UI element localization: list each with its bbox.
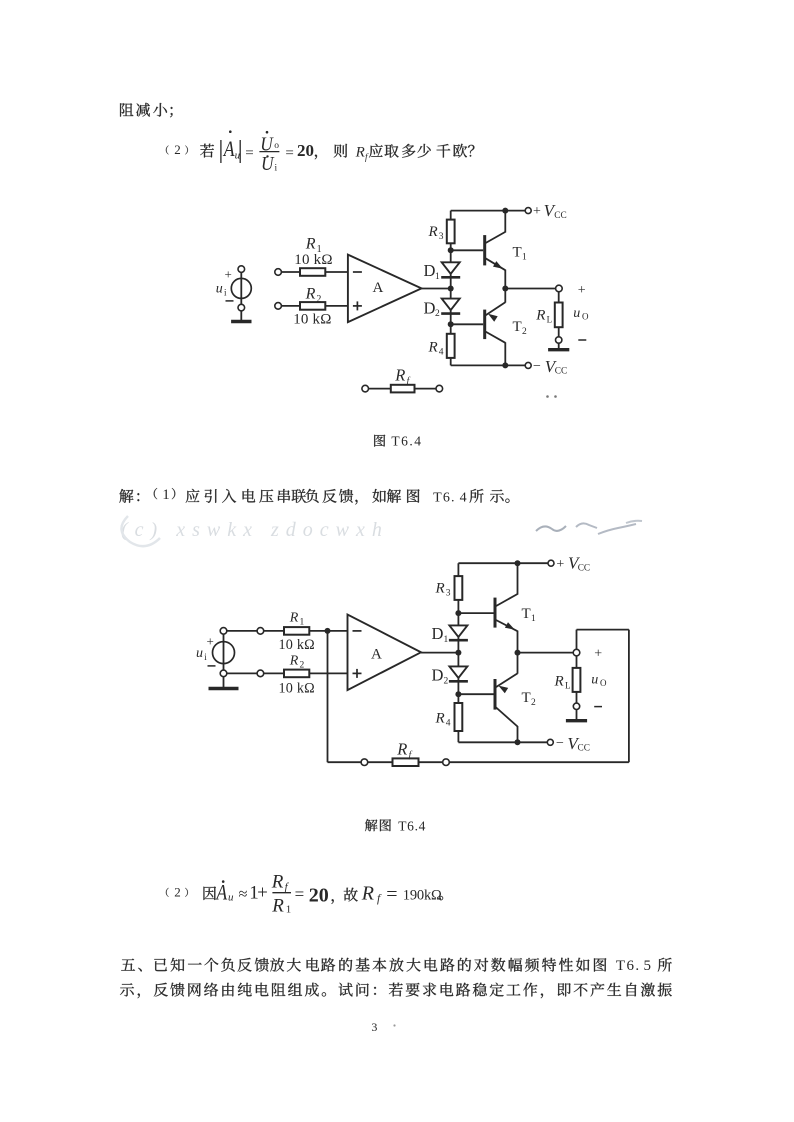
- wire output terminal up and over to feedback right side (fig2): [576, 630, 578, 650]
- svg-text:f: f: [285, 881, 290, 893]
- wire bottom rail (fig1): [451, 364, 526, 366]
- terminal +Vcc (fig1): [525, 208, 531, 214]
- resistor R1 (fig2): [284, 627, 309, 635]
- stray scan dots: [546, 395, 549, 398]
- node: R3/D1/T1 base junction (fig2): [455, 610, 461, 616]
- label - (uo): [578, 339, 586, 341]
- svg-text:10 kΩ: 10 kΩ: [294, 252, 332, 268]
- svg-text:CC: CC: [554, 211, 566, 221]
- diode D1 (fig1): [442, 262, 460, 274]
- svg-text:u: u: [573, 306, 580, 321]
- resistor R2 (fig1): [300, 302, 325, 310]
- transistor T2 (fig2, PNP): [458, 653, 517, 743]
- caption 图 T6.4: [374, 435, 385, 447]
- svg-text:T: T: [522, 606, 531, 622]
- node: output (emitters junction, fig1): [502, 286, 508, 292]
- resistor R4 (fig2): [455, 703, 463, 731]
- node terminal (fig2 R1 input): [257, 628, 264, 635]
- svg-text:T: T: [513, 319, 522, 335]
- resistor R3 (fig2): [455, 576, 463, 600]
- svg-text:R: R: [305, 286, 316, 303]
- svg-text:2: 2: [531, 698, 536, 708]
- terminal Rf right (fig2): [443, 759, 450, 766]
- wire: [281, 271, 300, 273]
- ground (fig2 RL): [576, 710, 578, 721]
- ground (fig1 RL): [558, 343, 560, 350]
- wire R2 to op-amp non-inverting input (fig2): [309, 672, 347, 674]
- terminal output + (fig2): [573, 649, 580, 656]
- svg-text:(c) xswkx zdocwxh: (c) xswkx zdocwxh: [121, 519, 389, 541]
- svg-text:CC: CC: [578, 563, 590, 573]
- wire: [264, 672, 284, 674]
- svg-text:2: 2: [522, 327, 527, 337]
- svg-text:+: +: [578, 283, 586, 298]
- ground (fig2 u_i): [223, 677, 225, 689]
- node: T1 collector to +Vcc rail (fig1): [502, 208, 508, 214]
- op-amp A (fig1): [348, 255, 422, 323]
- terminal output - (fig1): [556, 337, 562, 343]
- svg-text:3: 3: [446, 589, 451, 599]
- svg-text:T6.: T6.: [433, 491, 456, 506]
- diode D2 (fig2): [449, 666, 467, 678]
- svg-text:2: 2: [300, 661, 305, 671]
- svg-text:+: +: [533, 204, 541, 219]
- svg-text:D: D: [424, 299, 436, 318]
- svg-text:L: L: [547, 315, 553, 325]
- wire: [369, 388, 391, 390]
- svg-text:2: 2: [444, 677, 449, 687]
- wire feedback left run to inverting node (fig2): [328, 761, 362, 763]
- wire bottom rail (fig2): [458, 741, 547, 743]
- svg-text:2: 2: [174, 142, 181, 157]
- paragraph line B: [120, 983, 672, 999]
- wire feedback bottom run (fig2): [449, 761, 629, 763]
- terminal -Vcc (fig2): [547, 739, 553, 745]
- label - (uo fig2): [594, 706, 602, 708]
- svg-text:R: R: [435, 581, 445, 597]
- paragraph line A: [121, 958, 672, 974]
- svg-text:T: T: [513, 245, 522, 261]
- resistor RL (fig2): [573, 668, 581, 692]
- svg-text:T6.: T6.: [616, 958, 641, 974]
- svg-text:T6.4: T6.4: [398, 819, 426, 834]
- svg-text:D: D: [432, 624, 444, 643]
- node: T1 collector to +Vcc rail (fig2): [515, 560, 521, 566]
- transistor T1 (fig1, NPN): [451, 211, 506, 289]
- terminal -Vcc (fig1): [525, 362, 531, 368]
- svg-text:T6.4: T6.4: [391, 434, 422, 449]
- terminal output - (fig2): [573, 703, 579, 709]
- svg-text:A: A: [373, 280, 384, 296]
- svg-text:D: D: [432, 666, 444, 685]
- terminal Rf right (fig1): [436, 385, 443, 392]
- svg-text:=: =: [386, 884, 397, 906]
- svg-text:A: A: [222, 136, 235, 161]
- svg-text:R: R: [289, 653, 299, 668]
- svg-text:20: 20: [309, 884, 329, 906]
- resistor R1 (fig1): [300, 268, 325, 276]
- svg-text:T: T: [522, 690, 531, 706]
- svg-text:2: 2: [174, 885, 181, 900]
- wire u_i top to terminal (fig2): [227, 630, 257, 632]
- wire: [576, 692, 578, 703]
- svg-text:1: 1: [531, 614, 536, 624]
- node input terminal 2 (fig1): [275, 303, 282, 310]
- wire: [415, 388, 437, 390]
- svg-text:+: +: [556, 557, 564, 572]
- svg-text:R: R: [355, 145, 365, 161]
- svg-text:L: L: [565, 681, 571, 691]
- resistor R2 (fig2): [284, 670, 309, 678]
- wire: [558, 327, 560, 337]
- svg-text:o: o: [274, 141, 279, 151]
- svg-text:2: 2: [435, 309, 440, 319]
- svg-text:R: R: [428, 340, 438, 356]
- terminal Rf left (fig2): [361, 759, 368, 766]
- wire: [558, 292, 560, 303]
- resistor R3 (fig1): [447, 220, 455, 244]
- svg-text:i: i: [224, 288, 227, 298]
- node: feedback junction at inverting input (fig2): [325, 628, 331, 634]
- svg-text:O: O: [582, 312, 589, 322]
- svg-text:CC: CC: [578, 743, 590, 753]
- wire op-amp output (fig1): [422, 288, 451, 290]
- svg-text:R: R: [305, 235, 316, 252]
- svg-text:R: R: [535, 308, 545, 324]
- svg-text:3: 3: [371, 1020, 377, 1034]
- wire top rail (fig1): [451, 210, 526, 212]
- svg-text:+: +: [594, 647, 602, 662]
- node terminal (fig2 R2 input): [257, 670, 264, 677]
- svg-text:R: R: [428, 224, 438, 240]
- svg-text:190kΩ: 190kΩ: [403, 888, 442, 904]
- node: D2/R4/T2 base junction (fig1): [448, 321, 454, 327]
- op-amp A (fig2): [348, 615, 422, 691]
- svg-text:f: f: [365, 152, 369, 162]
- svg-text:O: O: [600, 678, 607, 688]
- source u_i (fig1): [216, 266, 252, 311]
- svg-text:D: D: [424, 261, 436, 280]
- svg-text:1: 1: [286, 903, 292, 915]
- svg-text:−: −: [556, 736, 564, 751]
- svg-text:R: R: [361, 882, 374, 904]
- svg-text:−: −: [533, 359, 541, 374]
- resistor Rf (fig2): [393, 758, 419, 766]
- formula 2: [166, 871, 443, 916]
- wire R1 to op-amp inverting input (fig2): [309, 630, 347, 632]
- terminal output + (fig1): [556, 285, 563, 292]
- wire bias chain vertical (fig2): [457, 563, 459, 742]
- terminal +Vcc (fig2): [548, 560, 554, 566]
- svg-text:u: u: [216, 282, 223, 297]
- wire: [576, 656, 578, 668]
- svg-text:R: R: [396, 740, 407, 759]
- ground (fig1 u_i): [240, 311, 242, 322]
- node: op-amp output / diode midpoint (fig1): [448, 286, 454, 292]
- node: output (emitters junction, fig2): [515, 650, 521, 656]
- wire op-amp output (fig2): [421, 652, 458, 654]
- svg-text:u: u: [591, 673, 598, 688]
- node input terminal 1 (fig1): [275, 269, 282, 276]
- node: D2/R4/T2 base junction (fig2): [455, 691, 461, 697]
- caption 解图 T6.4: [365, 819, 391, 831]
- wire: [368, 761, 393, 763]
- svg-text:A: A: [371, 647, 382, 663]
- svg-text:=: =: [285, 145, 293, 161]
- node: T2 collector to -Vcc rail (fig2): [515, 739, 521, 745]
- text: 阻减小；: [120, 103, 172, 117]
- svg-text:R: R: [554, 674, 564, 690]
- faint scan watermark: [121, 516, 642, 546]
- source u_i (fig2): [196, 628, 235, 677]
- svg-text:10 kΩ: 10 kΩ: [279, 681, 315, 697]
- svg-text:1: 1: [300, 618, 305, 628]
- wire bias chain vertical (fig1): [450, 211, 452, 366]
- transistor T2 (fig1, PNP): [451, 289, 506, 366]
- text: 解：（1）...: [119, 487, 509, 506]
- svg-text:CC: CC: [555, 366, 567, 376]
- svg-text:u: u: [228, 891, 234, 903]
- wire output (fig2): [518, 652, 574, 654]
- svg-text:4: 4: [446, 719, 451, 729]
- svg-text:=: =: [295, 884, 305, 903]
- svg-text:u: u: [196, 646, 203, 661]
- svg-text:R: R: [289, 611, 299, 626]
- svg-text:10 kΩ: 10 kΩ: [293, 311, 331, 327]
- svg-text:R: R: [435, 711, 445, 727]
- resistor RL (fig1): [555, 303, 563, 328]
- wire: [325, 271, 348, 273]
- diode D2 (fig1): [442, 299, 460, 311]
- svg-text:10 kΩ: 10 kΩ: [279, 637, 315, 653]
- svg-text:A: A: [215, 880, 228, 905]
- svg-text:20: 20: [297, 141, 314, 160]
- wire: [264, 630, 284, 632]
- svg-text:i: i: [275, 164, 278, 174]
- svg-text:1: 1: [162, 487, 170, 503]
- formula 1: [166, 130, 475, 175]
- node: T2 collector to -Vcc rail (fig1): [502, 362, 508, 368]
- svg-text:=: =: [245, 145, 253, 161]
- resistor Rf (fig1): [391, 385, 415, 393]
- svg-text:1: 1: [435, 272, 440, 282]
- wire output (fig1): [505, 288, 555, 290]
- svg-text:4: 4: [439, 348, 444, 358]
- node: op-amp output / diode midpoint (fig2): [455, 650, 461, 656]
- svg-text:+: +: [207, 634, 214, 649]
- svg-text:≈: ≈: [239, 886, 248, 903]
- diode D1 (fig2): [449, 625, 467, 637]
- wire: [281, 305, 300, 307]
- svg-text:R: R: [271, 871, 284, 892]
- svg-text:3: 3: [439, 232, 444, 242]
- svg-text:5: 5: [644, 958, 652, 974]
- svg-text:+: +: [257, 882, 268, 903]
- wire u_i bottom to terminal (fig2): [227, 672, 257, 674]
- svg-text:1: 1: [444, 635, 449, 645]
- resistor R4 (fig1): [447, 334, 455, 358]
- svg-text:f: f: [377, 893, 382, 905]
- node: R3/D1/T1 base junction (fig1): [448, 247, 454, 253]
- svg-text:4: 4: [460, 491, 467, 506]
- svg-text:R: R: [271, 896, 284, 917]
- svg-text:i: i: [204, 652, 207, 662]
- wire top rail (fig2): [458, 562, 548, 564]
- wire: [325, 305, 348, 307]
- terminal Rf left (fig1): [362, 385, 369, 392]
- svg-text:R: R: [394, 366, 405, 385]
- wire: [419, 761, 443, 763]
- svg-text:+: +: [225, 267, 232, 282]
- transistor T1 (fig2, NPN): [458, 563, 517, 652]
- svg-text:2: 2: [316, 294, 321, 305]
- svg-text:1: 1: [522, 253, 527, 263]
